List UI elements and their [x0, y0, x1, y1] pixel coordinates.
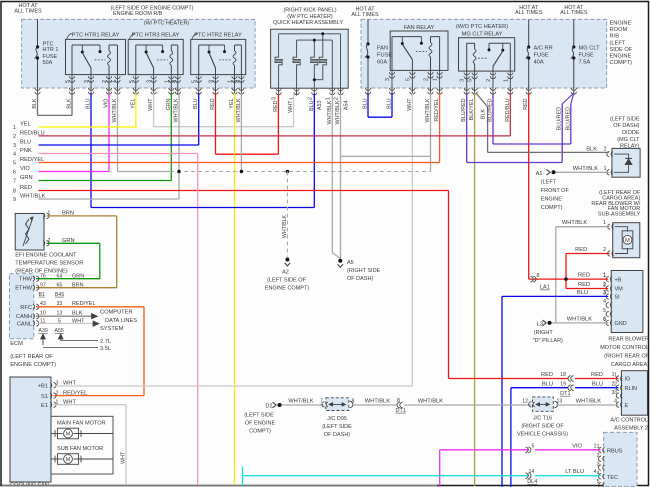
wire BLU relay2 pin5 — [198, 93, 200, 145]
svg-text:RED: RED — [575, 247, 587, 253]
wire WHT/BLK relay1 pin1 — [117, 93, 119, 172]
svg-text:1: 1 — [503, 79, 509, 82]
svg-text:1: 1 — [325, 97, 331, 100]
svg-text:BLU/RED: BLU/RED — [488, 98, 494, 121]
wire RED/YEL ECM RFC — [36, 306, 144, 308]
svg-text:BLU/RED: BLU/RED — [565, 107, 571, 130]
svg-text:B45: B45 — [55, 292, 64, 298]
svg-text:2: 2 — [307, 97, 313, 100]
wire VIO to RBUS via DL4-5 — [440, 449, 529, 451]
svg-text:3: 3 — [460, 79, 466, 82]
svg-text:OF ENGINE: OF ENGINE — [245, 421, 276, 427]
svg-text:YEL: YEL — [20, 121, 31, 127]
svg-text:3: 3 — [84, 80, 90, 83]
wire BLU relay1 pin3 — [90, 93, 92, 208]
svg-text:TEC: TEC — [607, 475, 618, 481]
wire BLU/RED fuse to mg pin3 — [467, 162, 563, 164]
svg-text:RED: RED — [578, 273, 590, 279]
svg-text:BLK/YEL: BLK/YEL — [469, 99, 475, 121]
svg-text:3.5L: 3.5L — [100, 346, 111, 352]
svg-text:DT1: DT1 — [396, 408, 406, 414]
FAN fuse 60A — [367, 19, 369, 44]
EFI engine coolant temperature sensor — [15, 214, 44, 251]
svg-text:COMPUTER: COMPUTER — [100, 309, 133, 315]
svg-text:2: 2 — [424, 78, 430, 81]
svg-text:2: 2 — [603, 247, 606, 253]
svg-text:GND: GND — [615, 321, 627, 327]
svg-text:5: 5 — [192, 80, 198, 83]
svg-text:2: 2 — [612, 381, 615, 387]
rear blower motor control box — [611, 271, 643, 333]
svg-text:1: 1 — [164, 80, 170, 83]
svg-text:(LEFT SIDE OF: (LEFT SIDE OF — [267, 278, 306, 284]
svg-text:RFC: RFC — [20, 305, 32, 311]
svg-text:RED: RED — [273, 100, 279, 111]
svg-text:14: 14 — [529, 469, 535, 475]
wire WHT fan pin5 — [411, 93, 413, 386]
svg-text:GRN: GRN — [20, 175, 33, 181]
quick heater assembly box — [271, 29, 349, 88]
wire WHT/BLK D95 to DT1-8 — [353, 404, 397, 406]
wire RED VM — [566, 288, 608, 290]
svg-text:CANH: CANH — [16, 314, 32, 320]
svg-text:8: 8 — [13, 189, 16, 195]
A39/A55 pointers — [42, 335, 44, 345]
svg-text:4: 4 — [13, 152, 16, 158]
FAN relay — [390, 31, 448, 70]
svg-text:ALL TIMES: ALL TIMES — [560, 10, 588, 16]
relay title swooshes — [67, 33, 73, 39]
svg-text:WHT/BLK: WHT/BLK — [567, 316, 592, 322]
svg-text:YEL: YEL — [130, 99, 136, 109]
svg-text:RBUS: RBUS — [607, 448, 623, 454]
wire WHT heater pin1 — [293, 94, 295, 127]
svg-text:E1: E1 — [41, 403, 48, 409]
wire RED/YEL fan pin1 — [439, 93, 441, 163]
svg-text:2.7L: 2.7L — [100, 339, 111, 345]
wire BLU/RED mg pin3 — [466, 93, 468, 163]
dashed WHT/BLK to ground A2 — [286, 172, 288, 257]
wire RED/YEL S1 — [54, 395, 145, 397]
svg-text:RELAY): RELAY) — [620, 144, 640, 150]
svg-text:A39: A39 — [39, 328, 48, 334]
svg-text:BLU: BLU — [309, 100, 315, 111]
sub fan motor — [58, 454, 79, 465]
svg-text:60A: 60A — [377, 60, 387, 66]
svg-text:ALL TIMES: ALL TIMES — [515, 10, 543, 16]
svg-text:+B: +B — [615, 277, 622, 283]
svg-text:(LEFT: (LEFT — [541, 179, 557, 185]
svg-text:A54: A54 — [344, 101, 350, 111]
svg-text:RED: RED — [591, 372, 603, 378]
wire BRN sensor pin1 to ECM ETHW — [47, 215, 117, 217]
BLU fan fuse loop — [367, 93, 369, 117]
svg-text:WHT/BLK: WHT/BLK — [365, 399, 390, 405]
svg-text:BLU: BLU — [20, 139, 31, 145]
svg-text:(MG CLT: (MG CLT — [617, 137, 640, 143]
diode (MG CLT relay) box — [612, 148, 640, 177]
wire WHT/BLK fan pin2 — [430, 93, 432, 172]
svg-text:3: 3 — [603, 290, 606, 296]
wire WHT/BLK DT1 to J/C T16 — [404, 404, 531, 406]
svg-text:1: 1 — [228, 80, 234, 83]
svg-text:4: 4 — [603, 299, 606, 305]
svg-text:THW: THW — [19, 277, 33, 283]
svg-text:RED/YEL: RED/YEL — [434, 99, 440, 122]
svg-text:5: 5 — [603, 308, 606, 314]
svg-text:MG CLT: MG CLT — [579, 46, 601, 52]
svg-text:L3: L3 — [537, 321, 543, 327]
svg-text:IG: IG — [625, 377, 631, 383]
svg-text:SYSTEM: SYSTEM — [100, 326, 124, 332]
PTC HTR3 relay — [128, 39, 183, 74]
svg-text:CARGO AREA): CARGO AREA) — [611, 362, 649, 368]
svg-text:(RIGHT SIDE OF: (RIGHT SIDE OF — [521, 424, 564, 430]
svg-text:WHT/BLK: WHT/BLK — [335, 100, 341, 124]
svg-text:RED: RED — [210, 98, 216, 109]
svg-text:2: 2 — [334, 97, 340, 100]
svg-text:PNK: PNK — [20, 148, 32, 154]
svg-text:WHT/BLK: WHT/BLK — [327, 100, 333, 124]
svg-text:1: 1 — [111, 80, 117, 83]
svg-text:DATA LINES: DATA LINES — [105, 318, 137, 324]
wire BLU RLIN via DT1-19 — [511, 387, 568, 389]
svg-text:YEL: YEL — [229, 99, 235, 109]
svg-text:19: 19 — [560, 381, 566, 387]
svg-text:1: 1 — [603, 220, 606, 226]
svg-text:(LEFT SIDE: (LEFT SIDE — [244, 413, 274, 419]
svg-text:RED/BLU: RED/BLU — [505, 98, 511, 121]
svg-text:2: 2 — [597, 453, 600, 459]
svg-text:5: 5 — [468, 79, 474, 82]
svg-text:64: 64 — [57, 274, 63, 280]
svg-text:40A: 40A — [534, 60, 544, 66]
engine room R/B (fan/MG side) dashed box — [361, 19, 607, 88]
svg-text:3: 3 — [13, 143, 16, 149]
svg-text:ALL TIMES: ALL TIMES — [14, 8, 42, 14]
PTC HTR2 relay — [191, 39, 246, 74]
svg-text:2: 2 — [171, 80, 177, 83]
svg-text:BLK: BLK — [67, 98, 73, 109]
wire BLK CANH with arrow — [36, 315, 92, 317]
svg-text:DT1: DT1 — [560, 391, 570, 397]
svg-text:7: 7 — [13, 179, 16, 185]
svg-text:A55: A55 — [55, 328, 64, 334]
svg-text:COMPT): COMPT) — [249, 429, 271, 435]
BLK fuse loop — [37, 93, 39, 115]
engine room R/B (PTC side) dashed box — [22, 19, 256, 88]
MG CLT relay — [459, 38, 515, 71]
svg-text:5: 5 — [532, 443, 535, 449]
svg-text:R/B: R/B — [610, 34, 620, 40]
svg-text:(RIGHT KICK PANEL): (RIGHT KICK PANEL) — [283, 8, 336, 14]
svg-text:LA1: LA1 — [540, 285, 550, 291]
fan motors enclosure — [51, 416, 113, 474]
wire WHT +B1 to fan relay pin5 — [54, 385, 413, 387]
svg-text:S1: S1 — [41, 394, 48, 400]
svg-text:FRONT OF: FRONT OF — [541, 188, 570, 194]
svg-text:FUSE: FUSE — [579, 53, 594, 59]
svg-text:OF DASH): OF DASH) — [324, 432, 350, 438]
svg-text:(W/ PTC HEATER): (W/ PTC HEATER) — [287, 14, 333, 20]
svg-text:GRN: GRN — [72, 274, 84, 280]
svg-text:BLK: BLK — [32, 98, 38, 109]
WHT/BLK dashed shield bus — [118, 171, 171, 173]
wire WHT/BLK relay2 pin2 — [240, 93, 242, 172]
svg-text:B1: B1 — [39, 292, 45, 298]
wire WHT/BLK T16 to E pin — [556, 404, 618, 406]
svg-text:ASSEMBLY 2: ASSEMBLY 2 — [614, 425, 648, 431]
svg-text:COMPT): COMPT) — [610, 60, 633, 66]
svg-text:6: 6 — [603, 316, 606, 322]
PTC HTR1 relay — [66, 39, 126, 74]
svg-text:(LEFT SIDE: (LEFT SIDE — [610, 116, 640, 122]
svg-text:WHT/BLK: WHT/BLK — [425, 98, 431, 122]
wire RED a/c rr fuse — [528, 93, 530, 279]
quick heater elements — [275, 56, 282, 67]
svg-text:VM: VM — [615, 287, 624, 293]
svg-text:2: 2 — [13, 134, 16, 140]
svg-text:WHT/BLK: WHT/BLK — [562, 220, 587, 226]
PTC HTR 1 fuse 50A — [37, 19, 39, 47]
svg-text:A5: A5 — [347, 260, 354, 266]
wire WHT/BLK relay3 pin2 — [178, 93, 180, 199]
BLU/RED split from MG CLT fuse — [562, 93, 574, 104]
cooling fan ECU box — [10, 377, 51, 482]
svg-text:(RIGHT REAR OF: (RIGHT REAR OF — [604, 354, 649, 360]
svg-text:A2: A2 — [282, 270, 289, 276]
svg-text:SUB-ASSEMBLY: SUB-ASSEMBLY — [598, 212, 641, 218]
wire WHT relay3 pin3 — [153, 93, 155, 127]
svg-text:3: 3 — [614, 390, 617, 396]
svg-text:ENGINE: ENGINE — [610, 54, 632, 60]
MG CLT fuse 7.5A — [573, 19, 575, 47]
wire RED blower motor pin2 — [566, 253, 610, 255]
svg-text:(LEFT SIDE: (LEFT SIDE — [322, 424, 352, 430]
svg-text:A1: A1 — [536, 171, 543, 177]
svg-text:J/C T16: J/C T16 — [533, 416, 552, 422]
wire YEL relay2 pin1 (to bottom) — [234, 93, 236, 486]
svg-text:(LEFT REAR OF: (LEFT REAR OF — [10, 354, 53, 360]
wire WHT/BLK heater A54-1 — [331, 94, 333, 253]
svg-text:"D" PILLAR): "D" PILLAR) — [533, 338, 563, 344]
svg-text:MOTOR CONTROL: MOTOR CONTROL — [600, 345, 649, 351]
svg-text:SUB FAN MOTOR: SUB FAN MOTOR — [57, 446, 103, 452]
svg-text:1: 1 — [614, 373, 617, 379]
svg-text:5: 5 — [405, 78, 411, 81]
wire GRN relay3 pin1 — [170, 93, 172, 181]
svg-text:SIDE OF: SIDE OF — [610, 47, 633, 53]
svg-text:BLU: BLU — [577, 290, 588, 296]
relay pin connectors — [71, 75, 73, 95]
svg-text:3: 3 — [612, 390, 615, 396]
svg-text:OF DASH): OF DASH) — [613, 123, 639, 129]
svg-text:BRN: BRN — [72, 283, 84, 289]
svg-text:ENGINE COMPT): ENGINE COMPT) — [265, 286, 309, 292]
svg-text:ETHW: ETHW — [15, 286, 32, 292]
wire BLU heater pin2 — [313, 94, 315, 208]
wire BLU/RED mg pin2 — [492, 93, 494, 144]
wire BLU/RED fuse to mg pin2 — [493, 143, 571, 145]
svg-text:FUSE: FUSE — [534, 53, 549, 59]
svg-text:BLU: BLU — [387, 98, 393, 109]
svg-text:WHT/BLK: WHT/BLK — [576, 399, 601, 405]
ground L3 + wire WHT/BLK GND — [548, 321, 552, 325]
svg-text:18: 18 — [560, 372, 566, 378]
svg-text:VIO: VIO — [572, 443, 582, 449]
svg-text:13: 13 — [557, 399, 563, 405]
svg-text:12: 12 — [522, 399, 528, 405]
svg-text:(RIGHT SIDE: (RIGHT SIDE — [347, 268, 381, 274]
svg-text:A53: A53 — [317, 101, 323, 111]
svg-text:PTC HTR2 RELAY: PTC HTR2 RELAY — [194, 33, 242, 39]
ground A1 + wire WHT/BLK diode pin1 — [552, 170, 556, 174]
wire BLK to diode pin2 — [488, 151, 609, 153]
svg-text:3: 3 — [209, 80, 215, 83]
svg-text:5: 5 — [13, 161, 16, 167]
wire RED/BLU mg pin1 — [509, 93, 511, 136]
svg-text:EFI ENGINE COOLANT: EFI ENGINE COOLANT — [15, 252, 77, 258]
A/C control assembly 2 lower (RBUS/TEC) dashed box — [604, 432, 637, 486]
svg-text:VIO: VIO — [20, 166, 30, 172]
svg-text:ENGINE ROOM R/B: ENGINE ROOM R/B — [113, 11, 163, 17]
wire RED heater pin3 — [277, 94, 279, 155]
svg-text:(LEFT: (LEFT — [610, 40, 626, 46]
wire RED fuse to +B via LA1 — [529, 278, 609, 280]
svg-text:ENGINE COMPT): ENGINE COMPT) — [10, 362, 56, 368]
svg-text:M: M — [625, 238, 630, 244]
wire VIO relay1 pin2 — [108, 93, 110, 172]
svg-text:MAIN FAN MOTOR: MAIN FAN MOTOR — [57, 420, 106, 426]
svg-text:5: 5 — [597, 479, 600, 485]
svg-text:E: E — [625, 403, 629, 409]
svg-text:BLU: BLU — [592, 381, 603, 387]
wire BLK mg pin5 to diode — [476, 93, 488, 107]
svg-text:BLK: BLK — [480, 109, 486, 120]
svg-text:6: 6 — [13, 170, 16, 176]
svg-text:DL4: DL4 — [527, 479, 537, 485]
svg-text:ENGINE: ENGINE — [541, 196, 562, 202]
svg-text:WHT/BLK: WHT/BLK — [282, 214, 288, 238]
svg-text:1: 1 — [594, 443, 597, 449]
A/C control assembly 2 box — [621, 371, 647, 416]
main fan motor — [58, 428, 79, 439]
svg-text:9: 9 — [13, 197, 16, 203]
svg-text:1: 1 — [604, 166, 607, 172]
svg-text:ENGINE: ENGINE — [610, 21, 632, 27]
svg-text:WHT/BLK: WHT/BLK — [236, 98, 242, 122]
svg-text:+B1: +B1 — [38, 384, 48, 390]
svg-text:2: 2 — [102, 80, 108, 83]
svg-text:7: 7 — [320, 399, 323, 405]
WHT/BLK ground run D2 to E — [278, 403, 282, 407]
svg-text:RED: RED — [523, 98, 529, 109]
svg-text:8: 8 — [397, 398, 400, 404]
svg-text:LT BLU: LT BLU — [565, 469, 584, 475]
svg-text:4: 4 — [614, 399, 617, 405]
WHT/BLK link heater A54-2 to fan pin2 — [341, 155, 431, 157]
wire RED bus8 to IG via DT1-18 — [448, 191, 450, 379]
svg-text:VIO: VIO — [104, 99, 110, 108]
svg-text:WHT/BLK: WHT/BLK — [174, 98, 180, 122]
svg-text:DIODE: DIODE — [622, 130, 640, 136]
svg-text:RED: RED — [578, 282, 590, 288]
svg-text:3: 3 — [272, 97, 278, 100]
svg-text:50A: 50A — [43, 60, 53, 66]
svg-text:3: 3 — [147, 80, 153, 83]
wire RED relay2 pin3 — [215, 93, 217, 154]
svg-text:REAR BLOWER: REAR BLOWER — [608, 337, 649, 343]
svg-text:WHT: WHT — [121, 451, 127, 464]
svg-text:A/C CONTROL: A/C CONTROL — [610, 417, 648, 423]
svg-text:(W/ PTC HEATER): (W/ PTC HEATER) — [144, 21, 190, 27]
svg-text:2: 2 — [603, 282, 606, 288]
wire YEL relay3 pin5 — [135, 93, 137, 127]
svg-text:WHT: WHT — [288, 100, 294, 113]
svg-text:M: M — [66, 432, 71, 438]
svg-text:TEMPERATURE SENSOR: TEMPERATURE SENSOR — [15, 260, 83, 266]
svg-text:(W/O PTC HEATER): (W/O PTC HEATER) — [456, 24, 508, 30]
BLU cross link (relay1 pin3 to heater pin2) — [91, 207, 314, 209]
svg-text:WHT/BLK: WHT/BLK — [418, 399, 443, 405]
YEL bus1 connect — [136, 126, 137, 128]
wire WHT/BLK blower motor pin1 — [556, 226, 610, 228]
svg-text:3: 3 — [385, 78, 391, 81]
svg-text:ALL TIMES: ALL TIMES — [351, 12, 379, 18]
svg-text:2: 2 — [234, 80, 240, 83]
svg-text:FAN: FAN — [377, 46, 388, 52]
svg-text:BLU: BLU — [542, 381, 553, 387]
A/C RR fuse 40A — [528, 19, 530, 47]
svg-text:J/C D95: J/C D95 — [327, 416, 347, 422]
svg-text:4: 4 — [594, 469, 597, 475]
svg-text:ECM: ECM — [10, 341, 23, 347]
svg-text:8: 8 — [537, 273, 540, 279]
svg-text:HTR 1: HTR 1 — [43, 47, 59, 53]
wire WHT/BLK heater A54-2 — [340, 94, 342, 259]
svg-text:(RIGHT: (RIGHT — [534, 330, 554, 336]
svg-text:BLK: BLK — [586, 146, 597, 152]
svg-text:1: 1 — [13, 125, 16, 131]
PNK down to bottom — [197, 154, 199, 487]
svg-text:BLU: BLU — [193, 98, 199, 109]
wire WHT E1 — [54, 404, 127, 406]
wire BLU SI — [502, 295, 608, 297]
svg-text:1: 1 — [597, 444, 600, 450]
svg-text:2: 2 — [614, 382, 617, 388]
svg-text:WHT: WHT — [148, 98, 154, 111]
svg-text:97: 97 — [40, 283, 46, 289]
svg-text:VEHICLE CHASSIS): VEHICLE CHASSIS) — [517, 432, 568, 438]
svg-text:5: 5 — [129, 80, 135, 83]
svg-text:OF DASH): OF DASH) — [347, 276, 373, 282]
svg-text:FUSE: FUSE — [377, 53, 392, 59]
ECM box — [10, 274, 34, 339]
svg-text:WHT/BLK: WHT/BLK — [112, 98, 118, 122]
svg-text:WHT/BLK: WHT/BLK — [288, 399, 313, 405]
svg-text:RED: RED — [20, 185, 32, 191]
svg-text:M: M — [66, 457, 71, 463]
svg-text:RLIN: RLIN — [625, 386, 638, 392]
ground A5 + converging wires — [332, 253, 340, 258]
svg-text:PTC HTR1 RELAY: PTC HTR1 RELAY — [72, 33, 120, 39]
svg-text:BLU: BLU — [363, 98, 369, 109]
J/C D95 — [326, 398, 349, 411]
wire GRN sensor pin2 to ECM THW — [47, 242, 100, 244]
svg-text:ROOM: ROOM — [610, 27, 628, 33]
svg-text:PTC HTR3 RELAY: PTC HTR3 RELAY — [132, 33, 180, 39]
svg-text:2: 2 — [486, 79, 492, 82]
